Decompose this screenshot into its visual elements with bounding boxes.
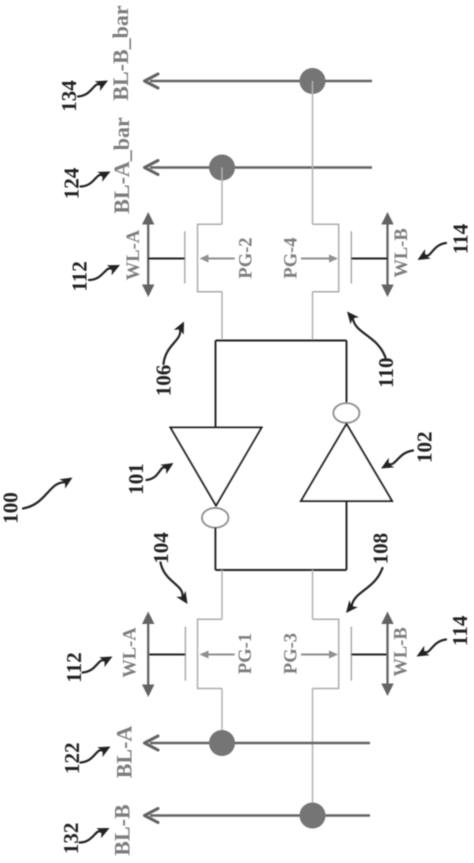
leader arrow 112 (top) (89, 265, 120, 280)
transistor PG-3 (301, 619, 351, 688)
inverter 102 input bubble (333, 403, 359, 423)
wire latch bottom edge (216, 569, 347, 571)
leader arrow 101 (147, 463, 174, 480)
wire inverter 102 base to latch bottom (346, 501, 348, 570)
wire WL-A to PG-2 gate (148, 258, 185, 260)
svg-text:101: 101 (124, 463, 148, 495)
svg-text:100: 100 (0, 492, 23, 524)
leader arrow 104 (161, 563, 188, 605)
wire latch left segment to inverter 101 input (215, 341, 217, 428)
wire BL-B horizontal line (150, 814, 370, 816)
svg-text:WL-A: WL-A (124, 229, 144, 280)
BL-A arrowhead (145, 736, 159, 750)
leader arrow 114 (top) (418, 243, 447, 260)
op-amp inverter U101 triangle (171, 428, 262, 506)
leader arrow 100 (23, 478, 73, 509)
svg-text:PG-2: PG-2 (237, 237, 257, 278)
svg-text:BL-A_bar: BL-A_bar (109, 117, 134, 214)
svg-text:102: 102 (412, 431, 436, 463)
word line WL-A arrow (bottom) (142, 612, 154, 698)
svg-text:BL-A: BL-A (112, 726, 137, 779)
leader arrow 132 (80, 828, 110, 843)
wire BL-B_bar dot to PG-4 drain (312, 81, 314, 224)
svg-text:122: 122 (60, 743, 84, 775)
BL-B_bar arrowhead (145, 74, 159, 88)
svg-text:PG-4: PG-4 (282, 237, 302, 278)
leader arrow 122 (81, 747, 111, 763)
svg-text:PG-3: PG-3 (282, 633, 302, 674)
wire PG-4 source to latch node (312, 292, 314, 341)
wire WL-A to PG-1 gate (148, 654, 185, 656)
svg-text:114: 114 (448, 615, 472, 646)
wire BL-A_bar dot to PG-2 drain (221, 168, 223, 225)
leader arrow 108 (346, 568, 383, 613)
leader arrow 102 (381, 451, 413, 469)
svg-text:WL-B: WL-B (392, 627, 412, 676)
svg-text:PG-1: PG-1 (236, 633, 256, 674)
node junction dot on BL-B (300, 803, 326, 829)
wire WL-B to PG-3 gate (351, 654, 387, 656)
svg-text:112: 112 (62, 652, 86, 682)
wire BL-A horizontal line (150, 742, 370, 744)
wire WL-B to PG-4 gate (351, 258, 387, 260)
wire inverter 101 output to latch bottom (214, 528, 216, 570)
word line WL-B arrow (bottom) (381, 612, 393, 697)
svg-text:WL-B: WL-B (392, 228, 412, 277)
op-amp inverter U102 triangle (301, 424, 392, 501)
leader arrow 106 (164, 322, 185, 365)
inverter 101 output bubble (202, 508, 228, 528)
wire PG-2 source to latch node (221, 292, 223, 341)
wire BL-A_bar horizontal line (150, 166, 372, 168)
transistor PG-2 (185, 224, 235, 292)
wire latch bottom to PG-3 drain (312, 570, 314, 619)
wire latch right segment to inverter 102 bubble (346, 341, 348, 404)
wire PG-3 source to BL-B dot (312, 689, 314, 816)
svg-text:108: 108 (368, 533, 392, 565)
leader arrow 124 (81, 172, 111, 187)
wire BL-B_bar horizontal line (150, 80, 372, 82)
transistor PG-4 (301, 224, 351, 292)
leader arrow 110 (347, 312, 386, 358)
svg-text:104: 104 (149, 532, 173, 564)
wire latch top edge (216, 340, 347, 342)
svg-text:114: 114 (448, 223, 472, 254)
node junction dot on BL-A_bar (209, 155, 235, 181)
BL-A_bar arrowhead (145, 161, 159, 175)
svg-text:BL-B_bar: BL-B_bar (108, 5, 133, 101)
svg-text:106: 106 (152, 365, 176, 397)
node junction dot on BL-B_bar (300, 68, 326, 94)
svg-text:112: 112 (68, 261, 92, 291)
svg-text:110: 110 (374, 358, 398, 388)
svg-text:BL-B: BL-B (110, 804, 135, 856)
leader arrow 114 (bottom) (417, 640, 447, 657)
BL-B arrowhead (145, 809, 159, 823)
svg-text:WL-A: WL-A (121, 627, 141, 678)
wire PG-1 source to BL-A dot (221, 689, 223, 744)
svg-text:132: 132 (59, 823, 83, 855)
node junction dot on BL-A (209, 730, 235, 756)
leader arrow 112 (bottom) (83, 657, 113, 673)
leader arrow 134 (78, 81, 108, 97)
wire latch bottom to PG-1 drain (221, 570, 223, 619)
word line WL-A arrow (top) (142, 212, 154, 297)
word line WL-B arrow (top) (381, 212, 393, 297)
transistor PG-1 (185, 619, 234, 688)
svg-text:124: 124 (60, 167, 84, 199)
